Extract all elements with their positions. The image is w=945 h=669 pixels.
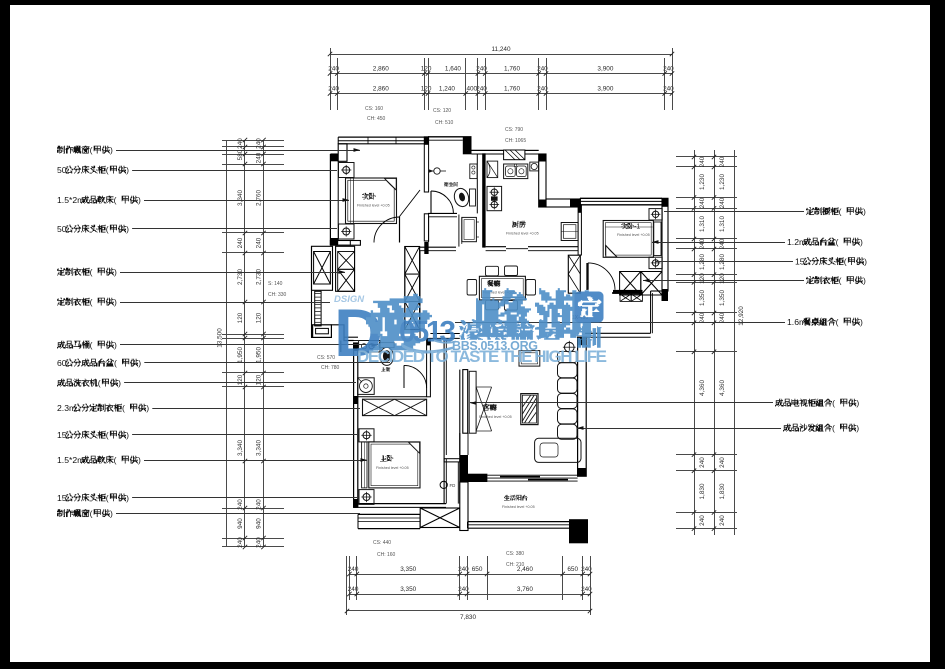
corridor bottom wall — [420, 246, 456, 248]
bedroom3 bottom wall — [354, 503, 446, 505]
svg-text:(: ( — [98, 378, 101, 388]
room label master bedroom — [380, 455, 387, 462]
svg-text:1,640: 1,640 — [445, 66, 461, 73]
svg-text:940: 940 — [237, 518, 244, 529]
svg-text:): ) — [126, 430, 129, 440]
svg-text:1.5*2m: 1.5*2m — [57, 455, 84, 465]
room label living — [483, 404, 490, 411]
kitchen top window hatched — [504, 150, 525, 160]
svg-text:240: 240 — [719, 312, 726, 323]
svg-text:(: ( — [844, 257, 847, 267]
svg-text:(: ( — [836, 237, 839, 247]
right dimension ticks — [676, 156, 737, 158]
left overall dimension 13,500 — [226, 140, 228, 547]
living floor lamp — [565, 342, 575, 352]
bedroom3 right wall upper — [443, 341, 445, 456]
svg-text:240: 240 — [719, 156, 726, 167]
bath1 door leaf and swing — [430, 191, 432, 213]
bottom overall dimension 7,830 — [347, 610, 590, 612]
bedroom2 bedside top — [649, 209, 662, 220]
bedroom2 door leaf and swing — [587, 263, 589, 290]
bath1 shower symbol — [434, 168, 440, 174]
svg-text:240: 240 — [256, 537, 263, 548]
hall door stub — [586, 263, 588, 290]
bedroom2 bedside bottom — [649, 257, 662, 268]
svg-text:): ) — [138, 455, 141, 465]
bedroom2 headboard — [654, 222, 661, 256]
svg-text:240: 240 — [699, 457, 706, 468]
entry door sill — [313, 325, 332, 338]
left annotation 成品马桶 (甲供) — [57, 341, 65, 349]
svg-text:(: ( — [90, 145, 93, 155]
balcony bottom window band — [468, 521, 570, 523]
svg-text:2,860: 2,860 — [373, 86, 389, 93]
right annotation 成品电视柜组合 (甲供) — [775, 399, 783, 407]
svg-text:CS: 120: CS: 120 — [433, 108, 451, 114]
kitchen fridge — [561, 223, 578, 241]
svg-text:1,830: 1,830 — [719, 483, 726, 499]
svg-text:1,230: 1,230 — [699, 174, 706, 190]
svg-text:240: 240 — [699, 312, 706, 323]
svg-text:CS: 440: CS: 440 — [373, 540, 391, 546]
svg-text:240: 240 — [256, 499, 263, 510]
entry niche wardrobe 2 — [336, 246, 355, 291]
bath2 corridor right wall — [427, 338, 431, 396]
svg-text:2,860: 2,860 — [373, 66, 389, 73]
left dimension slash ticks — [243, 138, 247, 142]
right annotation 成品沙发组合 (甲供) — [783, 424, 791, 432]
svg-text:(: ( — [122, 403, 125, 413]
svg-text:120: 120 — [719, 273, 726, 284]
svg-text:(: ( — [106, 493, 109, 503]
bath1 top wall continues — [428, 136, 472, 138]
kitchen bottom wall with door opening — [486, 246, 506, 248]
svg-text:CS: 380: CS: 380 — [506, 551, 524, 557]
hall wall black segment — [613, 290, 643, 294]
watermark big character chao — [535, 288, 593, 338]
svg-text:240: 240 — [256, 138, 263, 149]
left annotation 制作飘窗(甲供) — [57, 146, 65, 154]
svg-text:1,760: 1,760 — [504, 86, 520, 93]
svg-text:3,340: 3,340 — [237, 190, 244, 206]
svg-text:1,950: 1,950 — [237, 347, 244, 363]
living sofa back cushions — [558, 363, 578, 378]
svg-text:3,900: 3,900 — [597, 86, 613, 93]
bedroom1 bedside bottom — [339, 224, 355, 239]
bottom dimension row 2 — [349, 594, 590, 596]
bath1 vanity — [462, 217, 477, 241]
svg-text:): ) — [138, 195, 141, 205]
svg-text:Finished level +0.05: Finished level +0.05 — [506, 232, 539, 236]
svg-text:): ) — [126, 493, 129, 503]
svg-text:940: 940 — [256, 518, 263, 529]
svg-text:120: 120 — [237, 374, 244, 385]
bedroom2 wardrobe — [620, 272, 641, 296]
svg-text:Finished level +0.05: Finished level +0.05 — [502, 505, 535, 509]
svg-text:): ) — [114, 267, 117, 277]
left annotation 制作飘窗(甲供) — [57, 509, 65, 517]
svg-text:): ) — [118, 378, 121, 388]
svg-text:(: ( — [90, 509, 93, 519]
room label bedroom1 — [362, 193, 369, 200]
dining chair right — [526, 280, 536, 296]
kitchen stove — [487, 186, 502, 210]
right dimension slash ticks — [692, 155, 696, 159]
bedroom1 bottom wall stub right — [336, 241, 351, 246]
living south wall black column — [460, 455, 468, 482]
bedroom2 lower step walls — [651, 290, 662, 292]
left dimension ticks — [222, 140, 284, 142]
svg-text:(: ( — [832, 423, 835, 433]
bottom dimension slash ticks — [347, 572, 351, 576]
svg-text:240: 240 — [699, 238, 706, 249]
svg-text:240: 240 — [699, 515, 706, 526]
right chain lines — [694, 150, 696, 535]
svg-text:3,340: 3,340 — [256, 440, 263, 456]
svg-text:): ) — [114, 340, 117, 350]
living sofa arm top — [558, 352, 578, 363]
watermark swoosh — [402, 344, 453, 354]
svg-text:1,760: 1,760 — [504, 66, 520, 73]
svg-text:240: 240 — [237, 138, 244, 149]
svg-text:): ) — [110, 145, 113, 155]
right annotation 定制橱柜 (甲供) — [806, 207, 814, 215]
living east wall — [578, 337, 587, 476]
svg-text:1,830: 1,830 — [699, 483, 706, 499]
svg-text:120: 120 — [256, 312, 263, 323]
svg-text:(: ( — [114, 195, 117, 205]
bottom dimension row 1 — [349, 574, 590, 576]
svg-text:120: 120 — [256, 374, 263, 385]
living TV cabinet — [469, 371, 476, 433]
svg-text:240: 240 — [719, 238, 726, 249]
corridor right wall upper — [428, 217, 430, 242]
bottom wall white block — [460, 482, 468, 531]
svg-text:): ) — [126, 165, 129, 175]
svg-text:DECIDED TO TASTE THE HIGH LIFE: DECIDED TO TASTE THE HIGH LIFE — [357, 347, 607, 366]
svg-text:Finished level +0.05: Finished level +0.05 — [617, 233, 650, 237]
watermark character zhi — [577, 326, 602, 347]
svg-text:): ) — [110, 509, 113, 519]
left chain lines — [244, 140, 246, 547]
entry shoe cabinet hatched — [315, 291, 321, 326]
top dimension extension ticks — [330, 58, 332, 110]
kitchen sink — [504, 164, 528, 179]
room label bedroom2 — [621, 223, 627, 229]
svg-text:1,350: 1,350 — [699, 290, 706, 306]
bottom dimension extension ticks — [349, 556, 351, 600]
top dimension row 2 — [330, 93, 672, 95]
svg-text:CS: 160: CS: 160 — [365, 106, 383, 112]
room label balcony — [504, 495, 510, 501]
svg-text:1,230: 1,230 — [719, 174, 726, 190]
svg-text:1,310: 1,310 — [699, 216, 706, 232]
svg-text:2,730: 2,730 — [256, 269, 263, 285]
bath1 toilet — [452, 187, 470, 208]
svg-text:240: 240 — [719, 197, 726, 208]
room label kitchen — [512, 221, 519, 228]
svg-text:): ) — [864, 257, 867, 267]
room label bath1 — [444, 182, 449, 187]
svg-text:S: 140: S: 140 — [268, 281, 283, 287]
bedroom1 bedside top — [339, 163, 355, 178]
svg-text:(: ( — [90, 340, 93, 350]
bath1 bottom wall — [428, 212, 457, 214]
dining chairs bottom — [486, 300, 499, 310]
living top wall — [430, 333, 459, 335]
svg-text:240: 240 — [719, 457, 726, 468]
living west wall — [459, 370, 461, 455]
svg-text:CH: 210: CH: 210 — [506, 562, 525, 568]
svg-text:(: ( — [836, 317, 839, 327]
svg-text:11,240: 11,240 — [491, 46, 511, 53]
bedroom1 bottom wall left part — [330, 241, 360, 246]
bedroom2 right wall — [662, 198, 668, 291]
watermark hao bin lun tan characters — [459, 319, 483, 340]
partition bedroom1 bath1 — [424, 137, 428, 192]
bedroom3 bedside bottom — [359, 490, 374, 505]
svg-text:1.6m: 1.6m — [787, 317, 806, 327]
svg-text:): ) — [856, 398, 859, 408]
svg-text:(: ( — [106, 224, 109, 234]
svg-text:(: ( — [832, 398, 835, 408]
svg-text:240: 240 — [256, 237, 263, 248]
balcony corner column black — [569, 519, 588, 543]
entry niche wardrobe 1 — [312, 246, 333, 290]
bedroom1 bed — [346, 178, 397, 224]
svg-text:-1: -1 — [634, 224, 640, 231]
kitchen corner cabinet — [487, 161, 498, 178]
hall hatched wall column — [568, 255, 580, 293]
bath1 top-right black column — [463, 137, 472, 155]
bath2 bottom divider — [358, 396, 427, 398]
svg-text:7,830: 7,830 — [460, 614, 476, 621]
svg-text:CS: 570: CS: 570 — [317, 355, 335, 361]
svg-text:Finished level +0.05: Finished level +0.05 — [376, 466, 409, 470]
svg-text:240: 240 — [237, 537, 244, 548]
entry corner wall — [331, 325, 353, 341]
watermark boxed character ding — [575, 292, 604, 323]
svg-text:1,350: 1,350 — [719, 290, 726, 306]
svg-text:CH: 510: CH: 510 — [435, 120, 454, 126]
balcony sliding door track — [487, 474, 577, 476]
corridor left wall above bath2 — [419, 251, 421, 338]
watermark big character feng — [474, 288, 531, 337]
svg-text:): ) — [863, 276, 866, 286]
svg-text:): ) — [126, 224, 129, 234]
right annotation 定制衣柜 (甲供) — [806, 276, 814, 284]
bedroom1 door leaf and swing — [399, 217, 401, 243]
svg-text:): ) — [860, 317, 863, 327]
bedroom3 bay window — [358, 513, 420, 515]
living TV projection lines — [476, 387, 492, 431]
bedroom3 door circle — [440, 481, 447, 488]
kitchen left wall black — [482, 153, 485, 247]
kitchen top wall — [472, 149, 504, 151]
bath2 door leaf and swing — [404, 365, 427, 388]
kitchen right wall — [539, 154, 546, 207]
bedroom3 bedside top — [359, 429, 374, 442]
bedroom3 left wall — [354, 343, 358, 507]
top dimension slash ticks — [328, 71, 332, 75]
kitchen counter item — [530, 162, 539, 171]
bedroom3 right wall with door pocket — [443, 455, 445, 504]
svg-text:CH: 330: CH: 330 — [268, 292, 287, 298]
svg-text:CH: 450: CH: 450 — [367, 116, 386, 122]
svg-text:(: ( — [114, 358, 117, 368]
bath2 toilet — [380, 343, 395, 348]
bath2 vanity — [359, 341, 380, 353]
bath2 washing machine — [358, 378, 375, 395]
room label bath2 — [381, 367, 386, 372]
svg-text:CH: 1065: CH: 1065 — [505, 138, 526, 144]
bedroom2 left wall upper — [578, 205, 581, 255]
dining chair left — [467, 280, 477, 296]
bedroom2 top window band — [580, 197, 662, 199]
svg-text:3,350: 3,350 — [400, 586, 416, 593]
top dimension row 1 — [330, 73, 672, 75]
room label dining — [487, 280, 494, 287]
entry side wall — [311, 246, 313, 338]
svg-text:): ) — [114, 297, 117, 307]
svg-text:1,950: 1,950 — [256, 347, 263, 363]
svg-text:3,900: 3,900 — [597, 66, 613, 73]
living sofa chaise — [535, 438, 581, 462]
svg-text:(: ( — [839, 276, 842, 286]
svg-text:2,730: 2,730 — [237, 269, 244, 285]
svg-text:(: ( — [106, 165, 109, 175]
svg-text:(: ( — [114, 455, 117, 465]
bedroom3 bed — [369, 442, 420, 488]
bedroom1 bay window top wall — [338, 136, 425, 138]
svg-text:3,340: 3,340 — [237, 440, 244, 456]
corridor wardrobe column — [405, 247, 420, 330]
svg-text:): ) — [138, 358, 141, 368]
svg-text:(: ( — [839, 207, 842, 217]
svg-text:1,310: 1,310 — [719, 216, 726, 232]
bath1 vanity niche walls — [458, 215, 460, 247]
right overall dimension 12,920 — [734, 150, 736, 535]
svg-text:): ) — [860, 237, 863, 247]
svg-text:CS: 790: CS: 790 — [505, 127, 523, 133]
bath1 right wall — [476, 154, 478, 213]
svg-text:FD: FD — [450, 483, 456, 488]
bedroom2 small cabinet pair — [620, 294, 631, 301]
svg-text:3,350: 3,350 — [400, 566, 416, 573]
left annotation 定制衣柜 (甲供) — [57, 268, 65, 276]
svg-text:120: 120 — [699, 273, 706, 284]
svg-text:4,360: 4,360 — [719, 380, 726, 396]
bottom closet x-box — [420, 508, 460, 528]
left annotation 成品洗衣机(甲供) — [57, 379, 65, 387]
svg-text:): ) — [856, 423, 859, 433]
svg-text:): ) — [863, 207, 866, 217]
svg-text:240: 240 — [256, 152, 263, 163]
svg-text:(: ( — [90, 297, 93, 307]
svg-text:3,760: 3,760 — [517, 586, 533, 593]
svg-text:Finished level +0.05: Finished level +0.05 — [479, 415, 512, 419]
svg-text:1.5*2m: 1.5*2m — [57, 195, 84, 205]
svg-text:650: 650 — [472, 566, 483, 573]
svg-text:240: 240 — [699, 197, 706, 208]
svg-text:(: ( — [106, 430, 109, 440]
bedroom2 bed — [603, 221, 653, 258]
svg-text:650: 650 — [567, 566, 578, 573]
svg-text:(: ( — [90, 267, 93, 277]
watermark big character ai — [366, 294, 432, 351]
wall kitchen to bedroom2 — [546, 199, 580, 207]
svg-text:4,360: 4,360 — [699, 380, 706, 396]
dining table — [479, 276, 525, 300]
bath2 top wall — [344, 336, 358, 338]
living side table — [519, 351, 540, 367]
svg-text:Finished level +0.05: Finished level +0.05 — [357, 204, 390, 208]
TV feature wall — [463, 370, 468, 434]
dining chairs top — [486, 266, 499, 276]
svg-text:120: 120 — [237, 312, 244, 323]
bedroom1 top-left corner pier — [338, 144, 347, 162]
svg-text:240: 240 — [719, 515, 726, 526]
svg-text:240: 240 — [237, 237, 244, 248]
living TV hatched — [521, 394, 538, 425]
svg-text:1,240: 1,240 — [439, 86, 455, 93]
bedroom1 left wall — [329, 154, 331, 245]
top overall dimension 11,240 — [330, 54, 672, 56]
bath1 washbasin column — [470, 164, 477, 179]
svg-text:240: 240 — [237, 499, 244, 510]
bedroom3 headboard — [362, 442, 367, 488]
svg-text:CH: 160: CH: 160 — [377, 552, 396, 558]
balcony divider black wall — [468, 474, 487, 482]
left annotation 定制衣柜 (甲供) — [57, 298, 65, 306]
svg-text:2,760: 2,760 — [256, 190, 263, 206]
bedroom3 wardrobe band — [363, 399, 427, 415]
svg-text:): ) — [146, 403, 149, 413]
svg-text:240: 240 — [699, 156, 706, 167]
